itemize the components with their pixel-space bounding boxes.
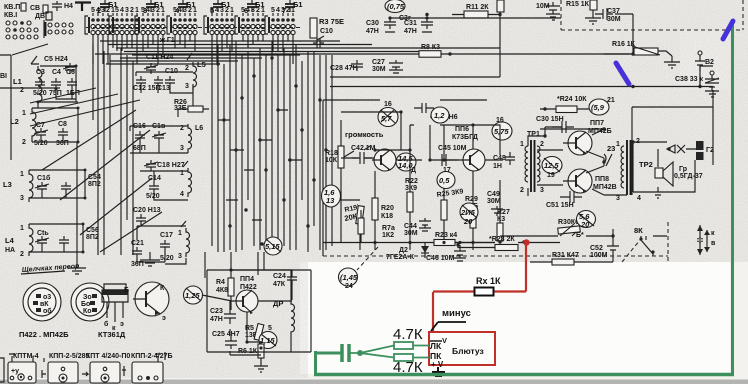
legend contact dots row 3 bbox=[6, 35, 10, 39]
svg-text:R11 2К: R11 2К bbox=[466, 4, 489, 11]
svg-text:К73БГД: К73БГД bbox=[452, 134, 478, 141]
junction dots on IF bus bbox=[216, 56, 327, 245]
svg-text:Д2: Д2 bbox=[399, 247, 408, 254]
transistor PP4 P422 label bbox=[240, 276, 257, 291]
svg-text:0,5ГД-37: 0,5ГД-37 bbox=[674, 173, 703, 180]
svg-text:С10: С10 bbox=[320, 28, 333, 35]
svg-text:о3: о3 bbox=[43, 294, 51, 301]
svg-text:КПТМ-4: КПТМ-4 bbox=[13, 353, 39, 360]
svg-text:4: 4 bbox=[120, 7, 124, 14]
left margin connector bbox=[0, 358, 4, 382]
svg-text:э: э bbox=[120, 321, 124, 328]
capacitor C28 47N bbox=[330, 60, 363, 72]
series resistor 4.7K lower (green body) bbox=[394, 354, 413, 361]
transistor PP6 circle bbox=[458, 149, 485, 171]
svg-text:L1: L1 bbox=[13, 77, 22, 86]
trimmer C11 bbox=[144, 63, 158, 74]
svg-text:3: 3 bbox=[143, 6, 147, 15]
coupling capacitor C42 1M bbox=[351, 145, 376, 164]
voltage note 1.45 bbox=[339, 268, 358, 290]
wires circuit 3 bbox=[29, 170, 85, 198]
svg-text:минус: минус bbox=[442, 308, 471, 319]
switch wafer 4 bbox=[167, 7, 197, 35]
scan noise texture bbox=[0, 0, 748, 262]
svg-text:Бо: Бо bbox=[81, 301, 90, 308]
voltage note 2.15 bbox=[460, 203, 478, 226]
resistor R11 2K bbox=[452, 4, 500, 18]
switch slider SV bbox=[43, 5, 48, 13]
svg-text:ж Г1: ж Г1 bbox=[159, 37, 175, 44]
switch slider KV bbox=[21, 3, 26, 11]
svg-text:2И5: 2И5 bbox=[460, 208, 476, 217]
svg-text:75П: 75П bbox=[49, 90, 62, 97]
svg-text:10К: 10К bbox=[325, 157, 338, 164]
svg-text:С5 Н24: С5 Н24 bbox=[44, 56, 68, 63]
green highlight frame right rail bbox=[731, 22, 734, 375]
vertical feed wires into detector bbox=[205, 252, 258, 278]
switch wafer 6 bbox=[235, 7, 265, 35]
svg-text:L2: L2 bbox=[10, 117, 19, 126]
capacitor B1.3 bbox=[175, 0, 196, 15]
capacitor C49 30M bbox=[487, 191, 503, 216]
coil L5 bbox=[185, 53, 206, 91]
svg-text:П422 . МП42Б: П422 . МП42Б bbox=[19, 330, 69, 339]
wires IF block3 bbox=[140, 171, 188, 200]
svg-text:0,5: 0,5 bbox=[439, 176, 450, 185]
svg-text:1К2: 1К2 bbox=[382, 232, 394, 239]
svg-text:R15 1К: R15 1К bbox=[566, 1, 590, 8]
capacitor B1.5 bbox=[244, 0, 265, 15]
svg-text:С17: С17 bbox=[160, 232, 173, 239]
wires circuit 4 bbox=[29, 224, 83, 252]
coil L2 bbox=[10, 108, 36, 146]
svg-text:ЛК: ЛК bbox=[430, 341, 442, 351]
svg-text:47К: 47К bbox=[273, 281, 286, 288]
svg-text:R27: R27 bbox=[497, 209, 510, 216]
svg-text:С54: С54 bbox=[88, 174, 101, 181]
capacitor C27 30M bbox=[372, 59, 403, 73]
capacitor C25 4N7 bbox=[212, 331, 240, 349]
coil L4 bbox=[5, 224, 33, 258]
resistor R4 4K8 bbox=[216, 270, 234, 310]
svg-text:2: 2 bbox=[130, 7, 134, 14]
svg-text:Блютуз: Блютуз bbox=[452, 346, 484, 356]
voltage note 1.6/13 at input bbox=[322, 185, 341, 207]
capacitor C17 bbox=[160, 232, 174, 262]
slanted interconnect wires from left edge to bus bbox=[12, 44, 162, 252]
svg-text:С4: С4 bbox=[52, 69, 61, 76]
connector G2 bbox=[667, 141, 714, 160]
svg-text:R5: R5 bbox=[245, 325, 254, 332]
resistor R29 K1B bbox=[465, 171, 478, 250]
potentiometer R16 1K bbox=[604, 41, 672, 56]
resistor R5 13E bbox=[245, 324, 264, 341]
enclosure right border bbox=[632, 66, 713, 195]
resistor R24 10K top of output stage bbox=[540, 96, 595, 113]
red wire horizontal run to resistor Rx bbox=[433, 290, 526, 292]
resistor R22 3K9 bbox=[405, 150, 418, 250]
svg-text:3: 3 bbox=[185, 83, 189, 90]
junction dots mid bbox=[498, 13, 501, 16]
svg-text:1: 1 bbox=[20, 171, 24, 178]
svg-text:э: э bbox=[162, 315, 166, 322]
svg-text:ПП4: ПП4 bbox=[240, 276, 254, 283]
voltage note 5.9 bbox=[589, 97, 615, 115]
svg-text:Д: Д bbox=[411, 167, 416, 174]
svg-text:ПП8: ПП8 bbox=[595, 176, 609, 183]
detector stage wires bbox=[202, 270, 292, 355]
svg-text:5,75: 5,75 bbox=[494, 127, 509, 136]
ground at pot bbox=[664, 56, 680, 68]
svg-text:НА: НА bbox=[5, 247, 15, 254]
bus jogs (staircase wire offsets) bbox=[218, 110, 302, 220]
svg-text:1: 1 bbox=[520, 141, 524, 148]
svg-text:ПП6: ПП6 bbox=[455, 126, 469, 133]
transistor PP7 MP42B label bbox=[588, 120, 612, 135]
AGC feedback wires bbox=[593, 26, 700, 87]
green fanout wires to resistors bbox=[349, 346, 394, 358]
svg-text:2: 2 bbox=[20, 87, 24, 94]
svg-text:(1,45: (1,45 bbox=[340, 273, 358, 282]
switch wafer 7 bbox=[265, 7, 295, 35]
tuning capacitor footprint KPE-2-5/285 bbox=[42, 353, 90, 383]
battery B2 bbox=[695, 51, 714, 71]
svg-text:47Н: 47Н bbox=[404, 28, 417, 35]
voltage note 0.75 at mixer bbox=[385, 0, 405, 13]
svg-text:С56: С56 bbox=[86, 227, 99, 234]
svg-text:Зо: Зо bbox=[83, 294, 92, 301]
svg-text:R4: R4 bbox=[216, 279, 225, 286]
voltage note 1.2 bbox=[431, 107, 449, 123]
voltage note 12.5 bbox=[542, 157, 562, 180]
svg-text:23: 23 bbox=[607, 144, 615, 153]
svg-text:30М: 30М bbox=[487, 198, 501, 205]
output transformer TP2 bbox=[616, 138, 653, 202]
svg-text:16: 16 bbox=[384, 101, 392, 108]
loudspeaker Gr 0.5GD-37 bbox=[633, 142, 703, 198]
volume pot R18 10K bbox=[325, 120, 354, 243]
long supply rail wires bbox=[0, 54, 713, 88]
antenna input wire bbox=[0, 55, 11, 160]
svg-text:В2: В2 bbox=[705, 59, 714, 66]
svg-text:С7: С7 bbox=[36, 122, 45, 129]
voltage note 0.5 bbox=[437, 167, 455, 189]
svg-text:(0,75: (0,75 bbox=[387, 2, 405, 11]
green leads into bluetooth box bbox=[413, 346, 429, 358]
AGC dashed enclosure top right bbox=[561, 0, 743, 30]
blue pen stroke top right corner bbox=[723, 21, 733, 39]
svg-text:2: 2 bbox=[20, 251, 24, 258]
resistor R8 K3 bbox=[419, 44, 452, 57]
trimmer C5 N24 bbox=[44, 56, 77, 74]
svg-text:1: 1 bbox=[616, 141, 620, 148]
tone arrows indicator bbox=[697, 225, 716, 255]
coil L3 bbox=[3, 170, 33, 202]
svg-text:1: 1 bbox=[20, 225, 24, 232]
svg-text:КВ.П: КВ.П bbox=[4, 4, 20, 11]
ground bus left bbox=[68, 142, 86, 274]
svg-text:5/20: 5/20 bbox=[160, 255, 174, 262]
wires IF block2 bbox=[130, 126, 188, 153]
svg-text:К18: К18 bbox=[381, 213, 393, 220]
svg-text:R22: R22 bbox=[405, 178, 418, 185]
svg-text:2: 2 bbox=[540, 141, 544, 148]
svg-text:2: 2 bbox=[185, 65, 189, 72]
resistor R28 2K horizontal bbox=[455, 236, 560, 251]
svg-text:1Н: 1Н bbox=[493, 163, 502, 170]
svg-text:С23: С23 bbox=[210, 308, 223, 315]
svg-text:КТ361Д: КТ361Д bbox=[98, 330, 126, 339]
svg-text:8П2: 8П2 bbox=[88, 181, 101, 188]
tuning capacitor footprint KPTM-4 bbox=[8, 353, 39, 383]
svg-text:1: 1 bbox=[22, 110, 26, 117]
dashed service lines bottom of amp bbox=[323, 222, 668, 262]
svg-text:68П: 68П bbox=[133, 145, 146, 152]
svg-text:3: 3 bbox=[616, 195, 620, 202]
svg-text:4: 4 bbox=[180, 191, 184, 198]
tuning capacitor footprint KPT4/240-P0 bbox=[82, 353, 130, 383]
svg-text:ВI: ВI bbox=[0, 73, 7, 80]
svg-text:L3: L3 bbox=[3, 180, 12, 189]
svg-text:L4: L4 bbox=[5, 236, 15, 245]
svg-text:С6: С6 bbox=[66, 69, 75, 76]
switch wafer 5 bbox=[204, 7, 234, 35]
svg-text:5,15: 5,15 bbox=[265, 242, 280, 251]
resistor Rx 1K body bbox=[475, 288, 494, 296]
resistor R7a 1K2 bbox=[358, 210, 395, 243]
contact dots row 4 bbox=[48, 23, 52, 27]
svg-text:С13: С13 bbox=[157, 85, 170, 92]
tuning capacitor footprint KPE-2-4/27B bbox=[131, 352, 173, 383]
voltage note 5.15 bbox=[264, 237, 282, 255]
resistor R9 vertical bbox=[497, 0, 504, 12]
svg-text:С48: С48 bbox=[493, 155, 506, 162]
svg-text:МП42В: МП42В bbox=[593, 184, 617, 191]
svg-text:7ГЕ2А-К: 7ГЕ2А-К bbox=[386, 254, 415, 261]
svg-text:12,5: 12,5 bbox=[544, 161, 559, 170]
svg-text:3: 3 bbox=[540, 187, 544, 194]
AF amplifier enclosure left border bbox=[322, 100, 324, 256]
capacitor C31 47N bbox=[404, 18, 433, 35]
svg-text:С44: С44 bbox=[404, 223, 417, 230]
ground under IF block bbox=[140, 252, 160, 266]
svg-text:36П: 36П bbox=[56, 140, 69, 147]
variable resistor R30 K62 bbox=[558, 219, 584, 239]
capacitor C43 3N6 bbox=[414, 103, 458, 121]
svg-text:С31: С31 bbox=[404, 20, 417, 27]
capacitor C21 36P bbox=[131, 240, 144, 268]
svg-text:Б1: Б1 bbox=[108, 0, 118, 9]
output stage wires bbox=[500, 127, 627, 262]
svg-text:L6: L6 bbox=[195, 125, 203, 132]
IF transformer block 1: label C11 N24 bbox=[144, 54, 173, 74]
coupling capacitor C2 top bbox=[52, 1, 73, 11]
svg-text:С42 1М: С42 1М bbox=[351, 145, 376, 152]
svg-text:4К8: 4К8 bbox=[216, 287, 228, 294]
contact dots row 5 bbox=[48, 30, 52, 34]
svg-text:С24: С24 bbox=[273, 273, 286, 280]
svg-text:к: к bbox=[711, 230, 715, 237]
svg-text:Б1: Б1 bbox=[293, 0, 303, 9]
svg-text:2: 2 bbox=[286, 7, 290, 14]
svg-text:1: 1 bbox=[178, 230, 182, 237]
capacitor B1.2 bbox=[143, 0, 164, 15]
svg-text:1: 1 bbox=[135, 7, 139, 14]
svg-text:5: 5 bbox=[268, 325, 272, 332]
svg-text:С18 Н27: С18 Н27 bbox=[157, 162, 185, 169]
svg-text:С11 Н24: С11 Н24 bbox=[146, 54, 173, 61]
svg-text:47Н: 47Н bbox=[366, 28, 379, 35]
transistor PP8 circle bbox=[563, 169, 592, 193]
transistor PP5 circle bbox=[372, 149, 396, 171]
svg-text:5,7: 5,7 bbox=[381, 114, 392, 123]
svg-text:3: 3 bbox=[125, 7, 129, 14]
svg-text:СВ: СВ bbox=[30, 5, 40, 12]
svg-text:3: 3 bbox=[101, 7, 105, 14]
svg-text:47Н: 47Н bbox=[210, 316, 223, 323]
phase note 23 bbox=[604, 144, 615, 166]
svg-text:С27: С27 bbox=[372, 59, 385, 66]
blue pen stroke mid right bbox=[616, 63, 629, 84]
diode D2 7GE2A-K bbox=[386, 242, 429, 261]
resistor R31 K47 bbox=[530, 252, 613, 265]
transistor PP4 circle bbox=[232, 290, 258, 314]
svg-text:+у: +у bbox=[11, 368, 19, 375]
transistor package KT361D drawing bbox=[102, 284, 128, 332]
red tap wire from amplifier rail (vertical) bbox=[525, 243, 527, 292]
voltage note 14.5/14.0 bbox=[396, 153, 416, 174]
svg-text:Б: Б bbox=[124, 287, 129, 294]
svg-text:4: 4 bbox=[637, 195, 641, 202]
driver transformer TP1 bbox=[520, 131, 546, 196]
svg-text:1,2: 1,2 bbox=[434, 111, 445, 120]
capacitor C20 N13 bbox=[133, 207, 161, 225]
voltage note 5.75 bbox=[492, 117, 512, 140]
antenna wire top bbox=[75, 3, 91, 12]
capacitor C51 15N bbox=[546, 191, 582, 209]
green audio coupling capacitor bbox=[342, 344, 349, 362]
svg-text:30М: 30М bbox=[607, 16, 621, 23]
coil L8 bbox=[178, 221, 190, 260]
capacitor C7 5/20 bbox=[34, 122, 48, 147]
capacitor C30 15N coupling bbox=[536, 116, 574, 133]
svg-text:ТР1: ТР1 bbox=[527, 131, 540, 138]
capacitor C23 47N bbox=[210, 306, 236, 324]
svg-text:20: 20 bbox=[580, 220, 590, 229]
variable resistor R19 20K bbox=[344, 203, 365, 250]
resistor R26 33E bbox=[174, 99, 203, 112]
svg-text:20: 20 bbox=[463, 217, 473, 226]
svg-text:R20: R20 bbox=[381, 205, 394, 212]
capacitor C48 1N bbox=[493, 152, 515, 170]
capacitor C8 36P bbox=[56, 121, 69, 147]
svg-text:С52: С52 bbox=[590, 245, 603, 252]
band selector legend block (KV/SV/DV) top-left corner bbox=[4, 3, 73, 39]
svg-text:Б1: Б1 bbox=[154, 0, 164, 9]
coil L6 bbox=[180, 124, 203, 153]
svg-text:6: 6 bbox=[244, 6, 248, 15]
switch 8K bbox=[634, 226, 667, 256]
wires IF block1 bbox=[136, 72, 209, 117]
svg-text:5/20: 5/20 bbox=[146, 193, 160, 200]
clean white zone bottom right bbox=[300, 262, 730, 374]
svg-text:С45 10М: С45 10М bbox=[438, 145, 467, 152]
svg-text:5: 5 bbox=[210, 6, 214, 15]
svg-text:С20 Н13: С20 Н13 bbox=[133, 207, 161, 214]
junction dots left rf bbox=[37, 65, 87, 254]
capacitor C44 30M electrolytic bbox=[404, 218, 431, 237]
junction dots amp bbox=[373, 110, 474, 246]
svg-text:R16 1К: R16 1К bbox=[612, 41, 636, 48]
svg-text:С51 15Н: С51 15Н bbox=[546, 202, 574, 209]
svg-text:2: 2 bbox=[22, 139, 26, 146]
svg-text:7: 7 bbox=[282, 6, 286, 15]
detector stage: voltage note 1.25 bbox=[184, 286, 203, 304]
trimmer capacitor C38 33k bbox=[675, 71, 719, 97]
svg-text:2: 2 bbox=[520, 187, 524, 194]
capacitor C56 8P2 bbox=[59, 227, 99, 247]
svg-text:3К9: 3К9 bbox=[405, 185, 417, 192]
bottom rail of amplifier bbox=[323, 242, 527, 244]
wire from R9 down bbox=[330, 12, 500, 77]
svg-text:ДР: ДР bbox=[273, 299, 283, 308]
choke DR bbox=[273, 270, 295, 348]
svg-text:С28 47Н: С28 47Н bbox=[330, 65, 358, 72]
resistor R20 K18 bbox=[372, 171, 394, 250]
red junction dot on rail bbox=[523, 239, 529, 245]
svg-text:13: 13 bbox=[326, 196, 335, 205]
svg-text:L5: L5 bbox=[197, 60, 206, 69]
transistor PP7 circle bbox=[563, 131, 592, 155]
pointer line to 1.45 note bbox=[357, 247, 378, 270]
resistor R3 75E vertical bbox=[310, 17, 344, 38]
resistor R15 1K bbox=[566, 0, 601, 24]
wire bus: horizontal collector lines bbox=[100, 41, 500, 64]
svg-text:Rх 1К: Rх 1К bbox=[476, 276, 501, 286]
trimmer Ct bbox=[35, 230, 49, 247]
coil L1 bbox=[13, 56, 42, 108]
switch wafer 3 bbox=[135, 7, 165, 35]
green highlight frame bottom rail bbox=[314, 373, 734, 377]
top rail into mixer caps bbox=[390, 17, 561, 19]
capacitor C52 100M bbox=[590, 242, 619, 259]
svg-text:С30: С30 bbox=[366, 20, 379, 27]
trimmer C18 N27 bbox=[144, 160, 185, 171]
capacitor B1.1 bbox=[97, 0, 118, 15]
svg-text:1: 1 bbox=[230, 7, 234, 14]
svg-text:громкость: громкость bbox=[345, 130, 384, 139]
svg-text:21: 21 bbox=[607, 97, 615, 104]
transistor pinout view MP42B bbox=[71, 283, 109, 321]
svg-text:R3 75Е: R3 75Е bbox=[319, 17, 344, 26]
junction dots output bbox=[498, 107, 634, 243]
svg-text:R7а: R7а bbox=[382, 225, 395, 232]
svg-text:С25 4Н7: С25 4Н7 bbox=[212, 331, 240, 338]
wire bus: vertical drop wires from band switch wafers bbox=[93, 35, 293, 64]
capacitor B1.6 bbox=[282, 0, 303, 15]
svg-text:б: б bbox=[104, 320, 109, 328]
svg-text:вК: вК bbox=[40, 301, 49, 308]
svg-text:К: К bbox=[160, 285, 165, 292]
detector feed stub bbox=[263, 252, 265, 270]
svg-text:19: 19 bbox=[547, 172, 555, 179]
svg-text:30М: 30М bbox=[404, 230, 418, 237]
svg-text:2: 2 bbox=[97, 6, 101, 15]
wafer bracket bbox=[43, 20, 45, 38]
bluetooth module box bbox=[429, 332, 495, 365]
svg-text:КПТ 4/240-П0: КПТ 4/240-П0 bbox=[86, 353, 130, 360]
svg-text:Б1: Б1 bbox=[221, 0, 231, 9]
